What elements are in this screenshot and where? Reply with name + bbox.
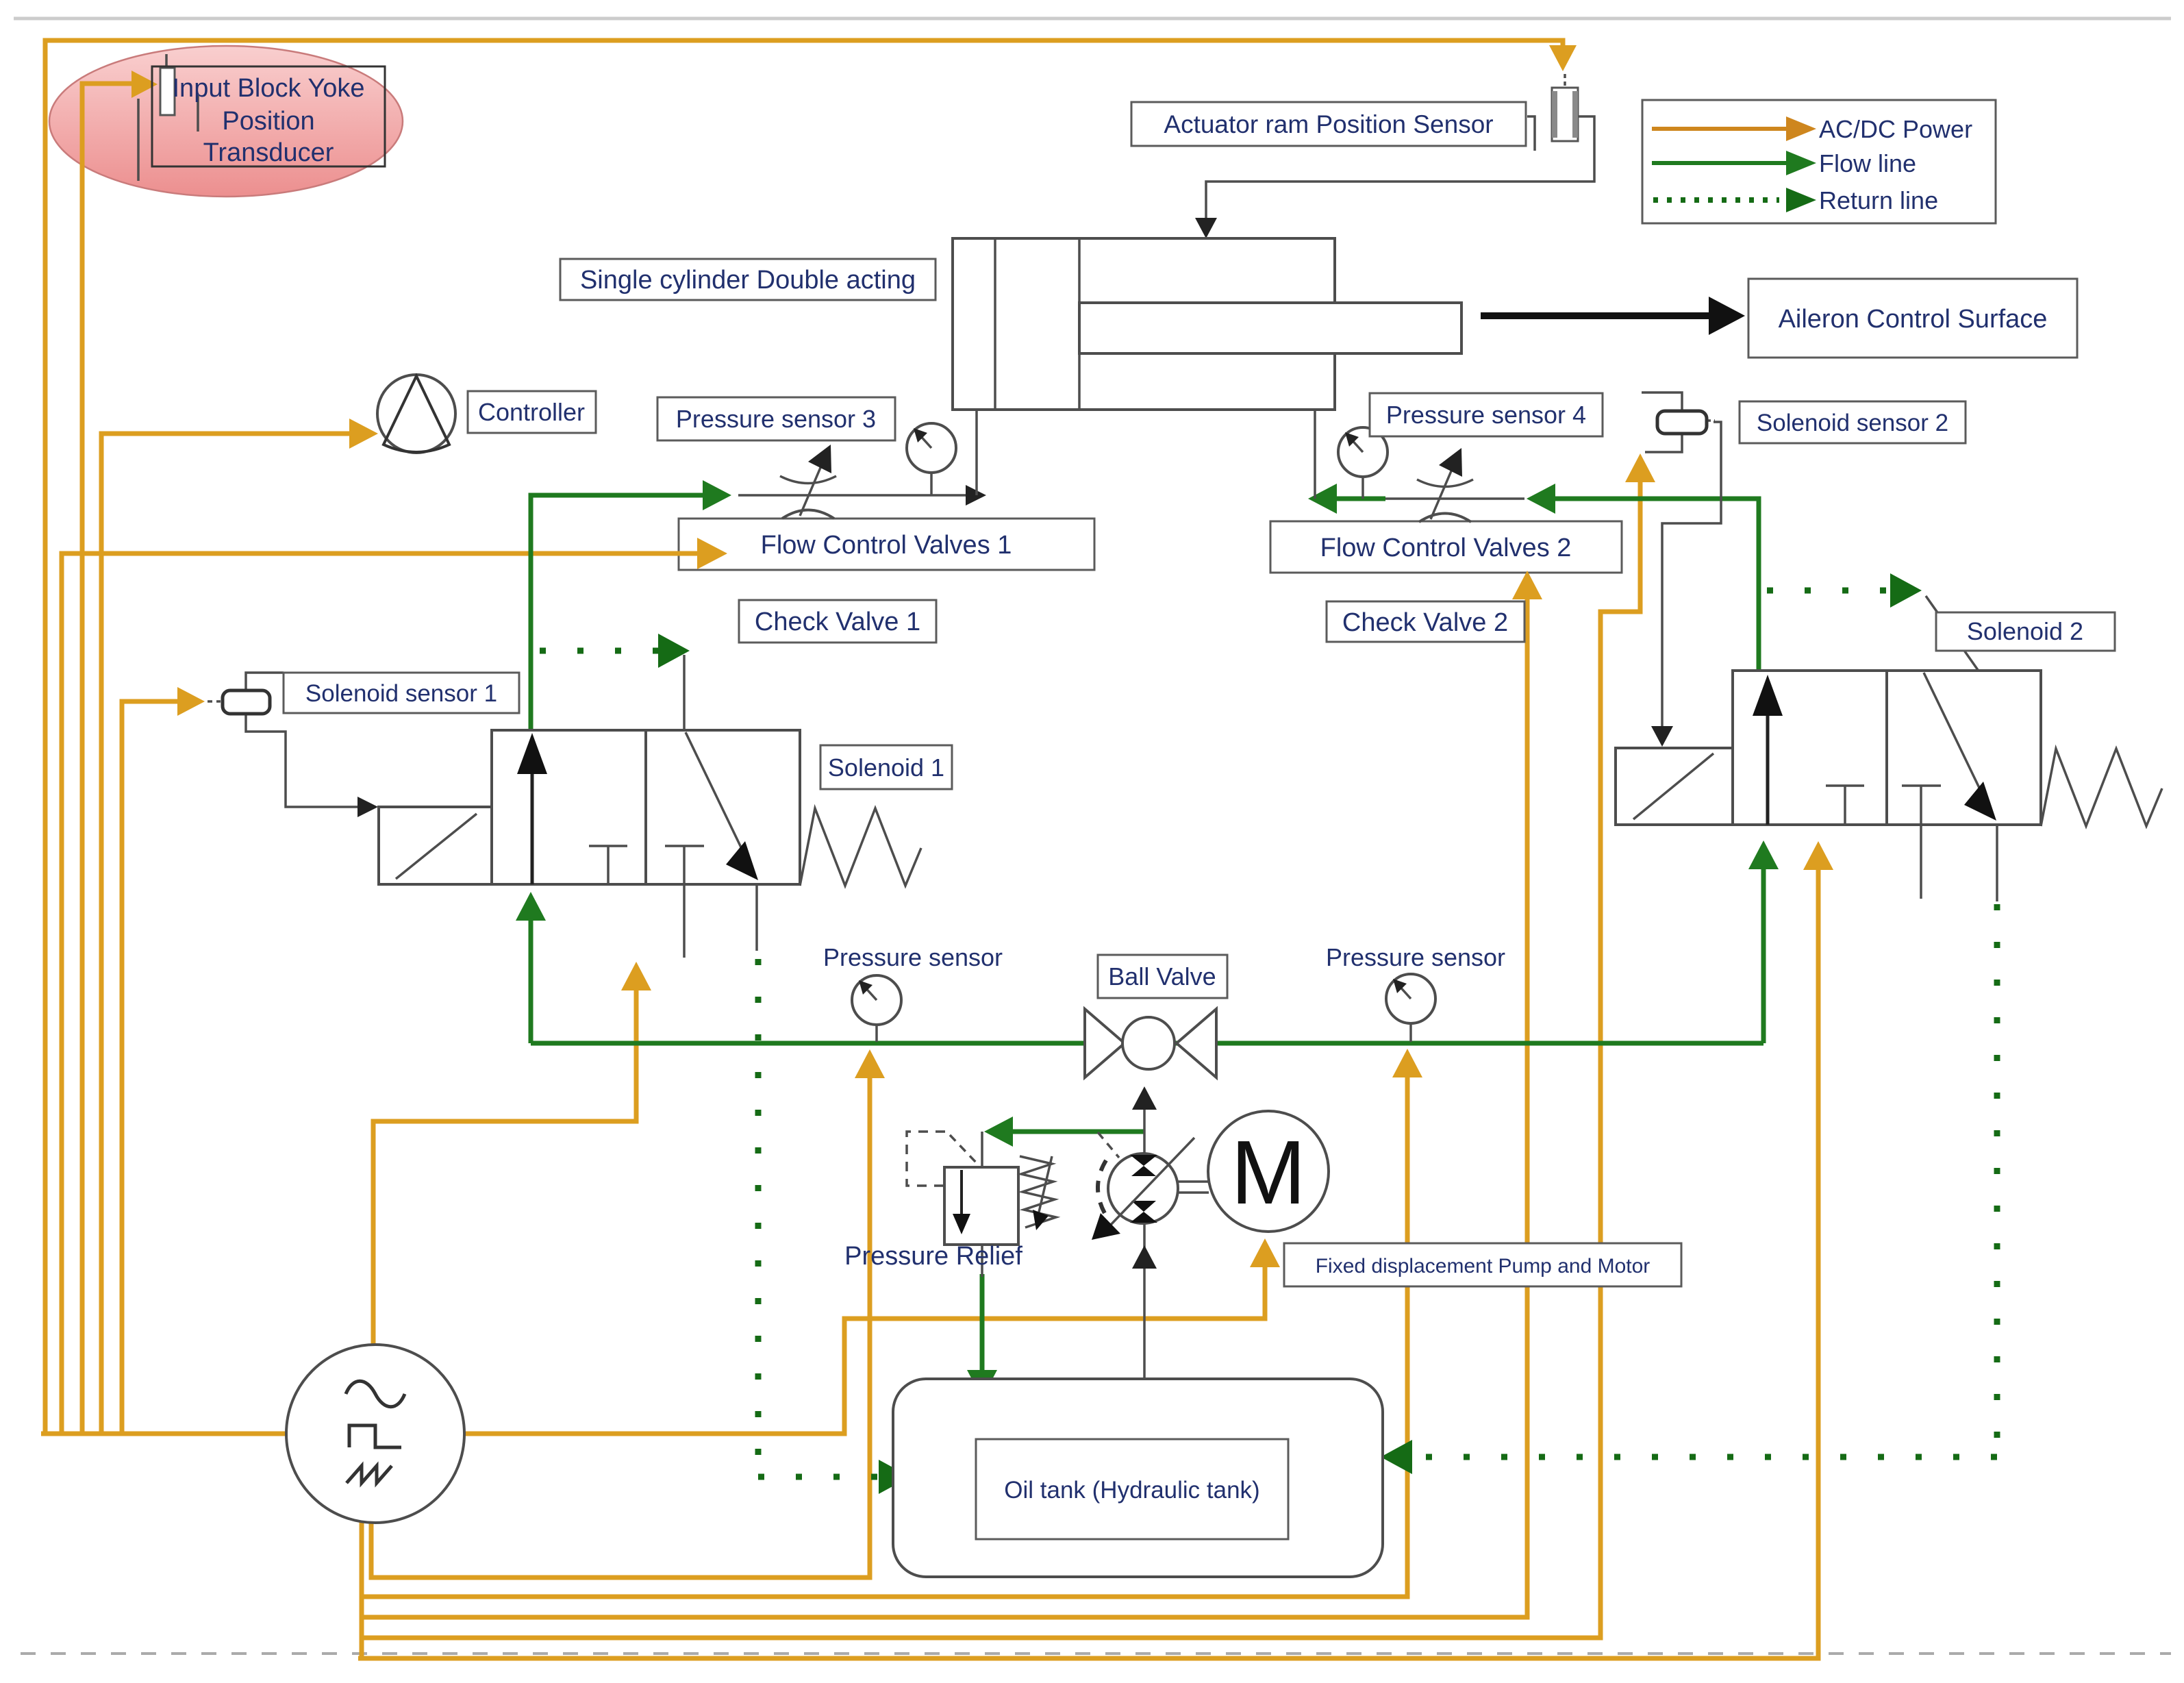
- label: Pressure sensor 3: [657, 397, 895, 440]
- highlight ellipse: Input Block Yoke Position Transducer: [49, 46, 403, 197]
- cylinder: single cylinder double acting actuator: [953, 238, 1461, 410]
- wire: solenoid sensor 1 to pilot of solenoid 1 valve: [246, 673, 362, 807]
- wire: return line 1 from solenoid 1 valve to oil tank (dotted): [758, 959, 885, 1477]
- wire: return line from check valve branch (dotted): [540, 648, 659, 654]
- wire: solenoid sensor 2 to pilot of solenoid 2 valve: [1662, 422, 1721, 737]
- svg-text:Pressure sensor: Pressure sensor: [1326, 943, 1505, 971]
- label: Flow Control Valves 2: [1270, 521, 1622, 573]
- wire: flow control valve 2 line: [1385, 497, 1524, 500]
- svg-text:Position: Position: [222, 107, 314, 136]
- wire: AC bus line B1 to left pressure sensor: [371, 1067, 870, 1578]
- pressure gauge: right pressure sensor: [1386, 974, 1435, 1023]
- label: Aileron Control Surface: [1748, 279, 2077, 358]
- wire: return branch to solenoid 2 (dotted): [1767, 588, 1887, 594]
- wire: pressure relief inlet drop: [981, 1132, 983, 1167]
- wire: flow into cylinder right port: [1308, 484, 1337, 514]
- flow control valve 1 symbol (adjustable restrictor): [780, 445, 836, 519]
- wire: return line 2 from solenoid 2 valve to oil tank (dotted): [1408, 904, 1997, 1457]
- wire: cylinder right port drop: [1314, 410, 1316, 499]
- wire: dash between arrow and solenoid sensor 1: [208, 700, 221, 703]
- label: Pressure sensor 4: [1370, 393, 1603, 436]
- svg-text:Actuator ram Position Sensor: Actuator ram Position Sensor: [1164, 110, 1493, 138]
- wire: AC power to input block yoke transducer: [82, 84, 141, 1434]
- wire: pressure gauge 3 stem: [930, 473, 933, 495]
- controller: [377, 375, 455, 453]
- ball valve: [1085, 1009, 1216, 1077]
- junction arrow: power into position sensor: [1549, 45, 1577, 71]
- label: Ball Valve: [1098, 955, 1227, 998]
- legend: Flow line: [1652, 161, 1786, 165]
- svg-text:Pressure sensor 3: Pressure sensor 3: [676, 405, 876, 433]
- wire: AC bus line B2 to right pressure sensor: [362, 1067, 1407, 1597]
- pressure gauge: left pressure sensor: [852, 975, 901, 1025]
- junction arrow: power into motor: [1250, 1238, 1280, 1267]
- svg-text:Solenoid 2: Solenoid 2: [1967, 617, 2083, 645]
- junction arrow: drain into oil tank: [967, 1370, 997, 1399]
- svg-text:Controller: Controller: [478, 398, 585, 426]
- label: Check Valve 1: [739, 600, 936, 643]
- junction arrow: power arrowhead at flow control valves 1: [697, 538, 727, 569]
- svg-text:Check Valve 2: Check Valve 2: [1342, 608, 1508, 637]
- junction arrow: power into solenoid 1 valve: [621, 962, 651, 990]
- junction arrow: return 1 into oil tank: [879, 1460, 910, 1494]
- wire: solenoid 2 valve return stub: [1996, 825, 1998, 901]
- junction arrow: power into solenoid 2 valve: [1803, 841, 1833, 870]
- wire: flow branch into solenoid 2 valve: [1761, 858, 1766, 1043]
- wire: AC power to flow control valves 1: [62, 553, 707, 1434]
- wire: position sensor to cylinder signal line: [1206, 116, 1594, 229]
- junction arrow: flow left through flow control valve 2: [1527, 484, 1555, 514]
- wire: solenoid 2 label leader: [1926, 596, 1978, 670]
- svg-text:Pressure sensor 4: Pressure sensor 4: [1386, 401, 1586, 429]
- solenoid sensor 1 symbol: [223, 690, 270, 714]
- junction arrow: power into solenoid sensor 2: [1625, 453, 1655, 482]
- svg-text:Ball Valve: Ball Valve: [1108, 962, 1216, 990]
- wire: flow from solenoid 1 valve to flow control valves 1: [531, 495, 711, 730]
- junction arrow: return 2 into oil tank: [1381, 1440, 1412, 1474]
- junction arrow: power into flow control valves 1: [697, 538, 727, 569]
- wire: AC bus line B4 to solenoid sensor 2: [362, 471, 1640, 1638]
- svg-text:Transducer: Transducer: [203, 138, 334, 167]
- wire: check valve 1 stub into solenoid 1 valve: [683, 655, 686, 730]
- label: Fixed displacement Pump and Motor: [1284, 1243, 1681, 1286]
- svg-text:Flow Control Valves 1: Flow Control Valves 1: [761, 531, 1012, 560]
- pump: fixed displacement pump: [1092, 1132, 1194, 1240]
- wire: label leader to position sensor: [1527, 116, 1535, 151]
- svg-text:Pressure sensor: Pressure sensor: [823, 943, 1003, 971]
- junction arrow: power arrowhead at flow control valves 2: [1512, 571, 1542, 599]
- wire: AC/DC power bus, AC source left terminal: [41, 1432, 286, 1436]
- wire: AC power to controller: [101, 434, 359, 1434]
- pressure gauge: pressure sensor 4: [1338, 427, 1388, 477]
- junction arrow: power into controller: [349, 419, 378, 449]
- solenoid sensor 2 symbol: [1657, 411, 1707, 434]
- svg-text:Aileron Control Surface: Aileron Control Surface: [1779, 305, 2048, 334]
- wire: AC bus line B5 to solenoid 2 valve coil: [358, 859, 1818, 1658]
- wire: solenoid 1 valve blocked port stem: [683, 884, 686, 958]
- label: Flow Control Valves 1: [679, 519, 1094, 570]
- junction arrow: power into right pressure sensor: [1392, 1049, 1422, 1077]
- label: Input Block Yoke Position Transducer: [152, 66, 385, 167]
- label: Solenoid 2: [1936, 612, 2115, 651]
- wire: solenoid sensor 2 bracket left: [1642, 392, 1682, 452]
- position sensor symbol: actuator ram position sensor: [1552, 88, 1578, 141]
- oil tank (hydraulic tank): [893, 1379, 1383, 1577]
- label: Single cylinder Double acting: [560, 259, 936, 300]
- junction arrow: flow into solenoid 2 valve: [1748, 840, 1779, 869]
- svg-text:AC/DC Power: AC/DC Power: [1819, 115, 1972, 143]
- AC power source: [286, 1345, 464, 1523]
- motor: electric motor M: [1178, 1111, 1329, 1232]
- wire: AC power overlay into flow control valves 1 label: [657, 551, 707, 556]
- wire: AC source bottom drop: [360, 1515, 364, 1658]
- junction arrow: return into check valve 1: [658, 634, 690, 668]
- junction arrow: signal into cylinder: [1195, 218, 1217, 238]
- wire: flow from pump line to pressure relief: [1003, 1130, 1144, 1134]
- wire: pump pressure line to ball valve: [1143, 1104, 1146, 1156]
- wire: AC power to solenoid sensor 1: [122, 701, 186, 1434]
- valve U1: solenoid 1 directional valve: [379, 730, 921, 886]
- svg-text:Solenoid 1: Solenoid 1: [828, 753, 944, 782]
- wire: solenoid 1 valve return stub: [755, 884, 758, 951]
- wire: AC power to fixed displacement motor: [464, 1256, 1265, 1434]
- wire: pressure gauge 4 stem: [1361, 477, 1364, 499]
- legend box: [1642, 100, 1996, 223]
- svg-text:Return line: Return line: [1819, 186, 1938, 214]
- junction arrow: power into solenoid sensor 1: [177, 687, 205, 716]
- junction arrow: power into left pressure sensor: [855, 1049, 885, 1078]
- flow control valve 2 lower arc overlay: [1419, 514, 1471, 523]
- junction arrow: power into input block transducer: [131, 71, 158, 98]
- wire: AC power to actuator ram position sensor (outer loop): [45, 40, 1563, 1434]
- junction arrow: pilot signal into solenoid 2 valve: [1651, 726, 1673, 747]
- svg-text:Single cylinder Double acting: Single cylinder Double acting: [580, 266, 916, 295]
- wire: dashes above position sensor: [1564, 74, 1566, 86]
- junction arrow: flow into cylinder left port line: [966, 485, 986, 506]
- svg-text:Input Block Yoke: Input Block Yoke: [173, 74, 365, 103]
- wire: cylinder left port drop: [975, 410, 978, 495]
- junction arrow: pump flow into ball valve: [1132, 1086, 1157, 1110]
- valve U2: solenoid 2 directional valve: [1616, 671, 2162, 826]
- wire: AC power to solenoid 1 valve coil: [373, 980, 636, 1345]
- label: Oil tank (Hydraulic tank): [976, 1439, 1288, 1539]
- wire: flow branch into solenoid 1 valve: [529, 910, 534, 1043]
- svg-text:Solenoid sensor 1: Solenoid sensor 1: [305, 680, 497, 707]
- wire: pressure relief drain to oil tank: [980, 1274, 985, 1381]
- wire: cylinder rod to aileron control surface: [1481, 312, 1716, 319]
- label: Solenoid sensor 2: [1740, 401, 1966, 443]
- transducer symbol: input block yoke position transducer: [138, 54, 198, 181]
- junction arrow: return toward solenoid 2: [1890, 573, 1922, 608]
- label: Controller: [468, 391, 596, 433]
- junction arrow: actuation into aileron control surface: [1709, 297, 1745, 335]
- svg-text:Fixed displacement Pump and Mo: Fixed displacement Pump and Motor: [1316, 1255, 1650, 1277]
- wire: right bottom pressure gauge stem: [1409, 1023, 1412, 1042]
- svg-text:Flow Control Valves 2: Flow Control Valves 2: [1320, 534, 1572, 562]
- flow control valve 2 symbol (adjustable restrictor): [1417, 448, 1473, 522]
- label: Actuator ram Position Sensor: [1131, 102, 1526, 146]
- label: Check Valve 2: [1327, 601, 1524, 642]
- svg-text:Oil tank (Hydraulic tank): Oil tank (Hydraulic tank): [1004, 1477, 1259, 1504]
- svg-text:Check Valve 1: Check Valve 1: [755, 608, 920, 636]
- wire: flow from solenoid 2 valve to flow control valves 2: [1548, 499, 1759, 673]
- wire: solenoid 2 valve blocked port stem: [1920, 825, 1922, 899]
- label: Solenoid sensor 1: [284, 673, 519, 713]
- junction arrow: flow into solenoid 1 valve: [516, 892, 546, 921]
- svg-text:Pressure Relief: Pressure Relief: [844, 1242, 1022, 1271]
- junction arrow: suction flow up: [1132, 1245, 1157, 1269]
- legend: AC/DC Power: [1652, 127, 1786, 131]
- label: Solenoid 1: [820, 745, 952, 789]
- svg-text:Solenoid sensor 2: Solenoid sensor 2: [1757, 410, 1948, 436]
- svg-text:M: M: [1231, 1122, 1306, 1223]
- pressure gauge: pressure sensor 3: [907, 423, 956, 473]
- wire: AC bus line B3 to check valve 2 / flow control valves 2: [362, 588, 1527, 1617]
- junction arrow: pilot signal into solenoid 1 valve: [357, 797, 378, 817]
- svg-text:Flow line: Flow line: [1819, 149, 1916, 177]
- junction arrow: flow into pressure relief: [984, 1117, 1013, 1147]
- wire: dash between solenoid sensor 2 and wire: [1707, 419, 1715, 422]
- junction arrow: flow into flow control valve 1 line: [703, 480, 731, 510]
- legend: Return line: [1653, 197, 1779, 203]
- wire: flow control valve 1 to cylinder left port: [738, 494, 970, 497]
- wire: pressure relief outlet: [981, 1245, 983, 1277]
- wire: pump suction from oil tank: [1143, 1223, 1146, 1379]
- pressure relief valve: [907, 1132, 1056, 1245]
- flow control valve 1 lower arc overlay: [782, 510, 834, 519]
- wire: left bottom pressure gauge stem: [875, 1025, 878, 1042]
- wire: main flow line from pump to both solenoid valves: [531, 1041, 1763, 1046]
